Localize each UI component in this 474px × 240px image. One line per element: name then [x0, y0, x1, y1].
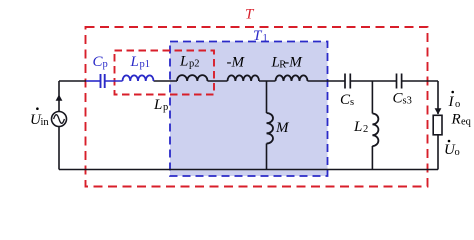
- svg-text:T1: T1: [253, 28, 268, 44]
- svg-text:Uin: Uin: [30, 112, 49, 128]
- svg-text:L2: L2: [353, 119, 368, 135]
- svg-text:T: T: [245, 7, 255, 23]
- svg-text:Req: Req: [451, 112, 472, 128]
- svg-text:Cs3: Cs3: [393, 91, 412, 107]
- svg-text:Lp1: Lp1: [130, 54, 151, 70]
- svg-text:Cs: Cs: [340, 92, 354, 108]
- svg-text:Io: Io: [448, 94, 461, 110]
- svg-text:Uo: Uo: [444, 142, 460, 158]
- svg-text:Cp: Cp: [93, 54, 108, 70]
- svg-text:LR-M: LR-M: [271, 55, 304, 71]
- svg-text:Lp: Lp: [153, 97, 168, 113]
- svg-text:-M: -M: [227, 55, 246, 71]
- svg-text:M: M: [275, 120, 290, 136]
